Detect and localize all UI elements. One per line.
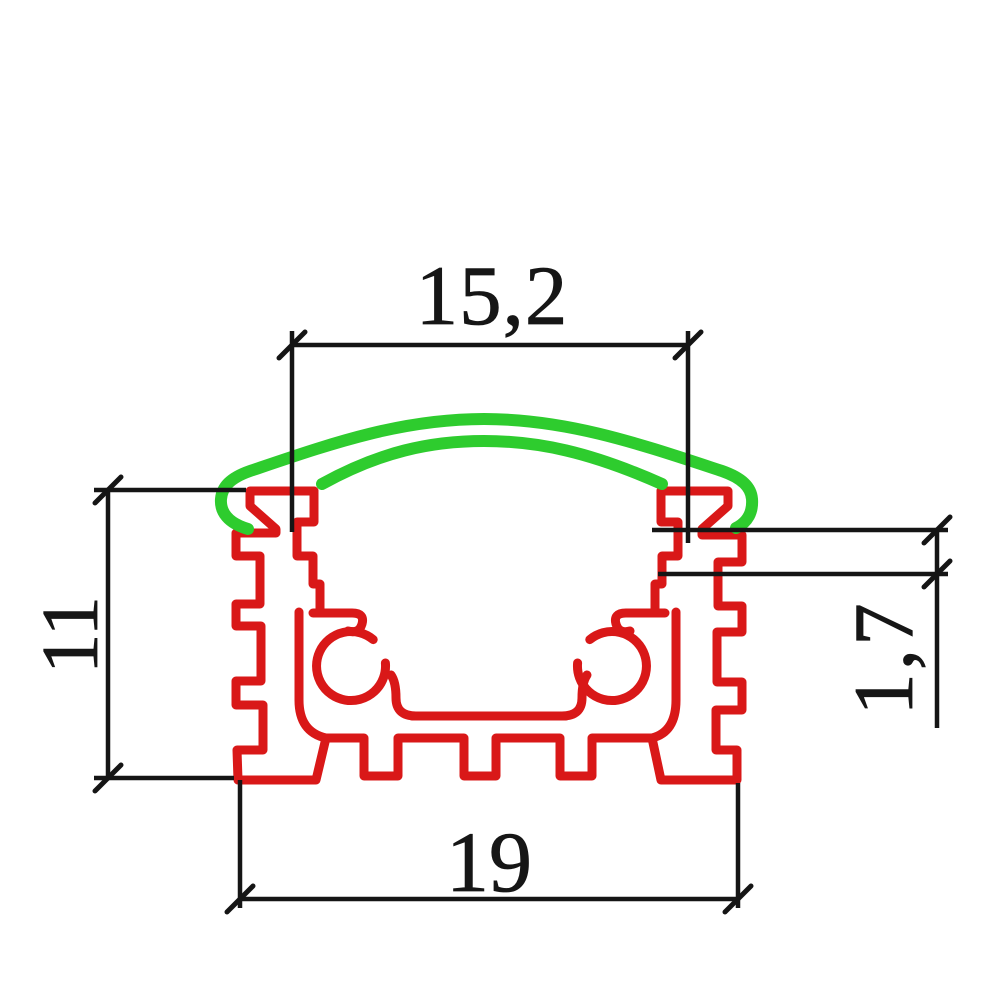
dim 1,7 lower extension — [658, 572, 948, 577]
dim 19 line — [240, 897, 738, 902]
tick dim 15,2 left — [279, 332, 305, 358]
svg-text:15,2: 15,2 — [416, 249, 569, 343]
tick dim 11 top — [95, 477, 121, 503]
dim 19 left extension — [238, 780, 243, 908]
profile inner wall left — [297, 491, 320, 610]
dim 11 bottom extension — [94, 776, 234, 781]
dim 11 top extension — [94, 488, 246, 493]
tick dim 1,7 top — [924, 517, 950, 543]
tick dim 11 bottom — [95, 765, 121, 791]
floor left upturned lip — [391, 675, 416, 716]
floor right upturned lip — [562, 675, 587, 716]
lens cover inner arc — [322, 441, 662, 484]
dim 19 right extension — [736, 783, 741, 908]
dim 1,7 line — [935, 530, 940, 728]
profile inner wall right — [655, 491, 678, 610]
lens cover outer arc — [221, 419, 752, 529]
left screw-boss ledge — [313, 613, 363, 632]
tick dim 15,2 right — [675, 332, 701, 358]
cavity floor — [412, 712, 566, 721]
dim 15,2 line — [292, 343, 688, 348]
dim 11 line — [106, 490, 111, 778]
tick dim 1,7 bottom — [924, 561, 950, 587]
svg-text:11: 11 — [25, 596, 115, 674]
tick dim 19 right — [725, 886, 751, 912]
dim 1,7 upper extension — [652, 528, 948, 533]
svg-text:19: 19 — [446, 814, 532, 910]
dim 15,2 right extension — [686, 331, 691, 543]
left screw boss C-circle — [317, 632, 386, 701]
right screw boss C-circle — [577, 632, 646, 701]
tick dim 19 left — [227, 886, 253, 912]
right screw-boss ledge — [615, 613, 665, 632]
svg-text:1,7: 1,7 — [837, 600, 931, 715]
profile inner wall left lower — [299, 612, 326, 738]
dim 15,2 left extension — [290, 331, 295, 532]
profile inner wall right lower — [652, 612, 676, 738]
profile outer boundary (walls, legs, bottom teeth) — [236, 491, 742, 780]
